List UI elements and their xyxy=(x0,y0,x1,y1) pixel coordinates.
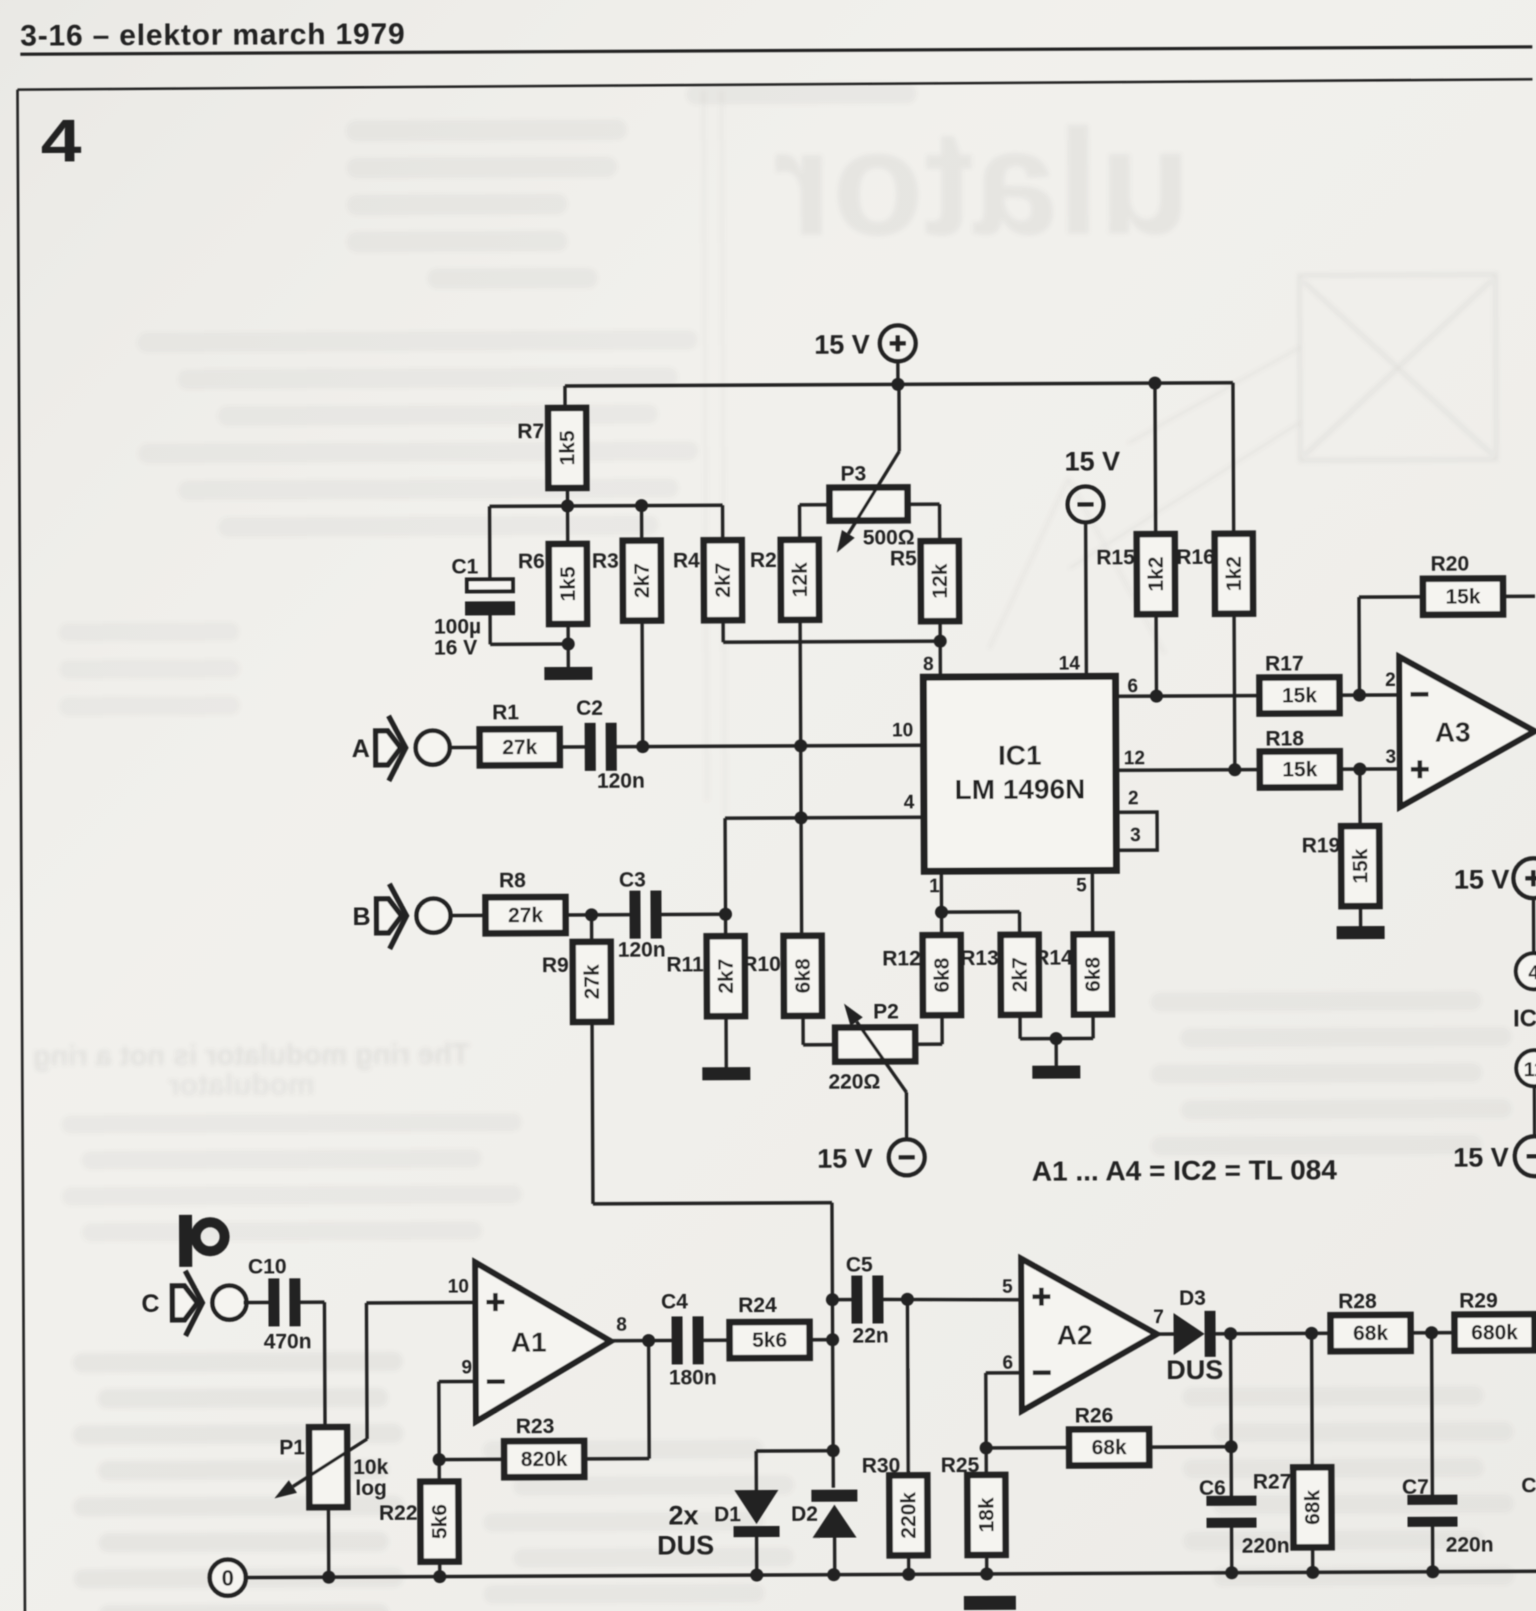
capacitor C5 xyxy=(851,1276,862,1324)
wire xyxy=(986,1446,1069,1450)
capacitor C2 xyxy=(585,723,596,771)
resistor R26 xyxy=(1069,1429,1149,1465)
wire xyxy=(1231,383,1235,534)
pin 11 xyxy=(1516,1050,1536,1086)
wire xyxy=(439,1458,505,1462)
resistor R10 xyxy=(784,936,822,1016)
node 0 terminal xyxy=(210,1560,246,1596)
wire xyxy=(1216,1332,1329,1336)
wire D1 branch xyxy=(756,1449,833,1453)
wire A2 out xyxy=(1157,1332,1174,1335)
svg-text:820k: 820k xyxy=(521,1448,568,1471)
wire xyxy=(800,503,830,507)
svg-text:D1: D1 xyxy=(714,1503,741,1526)
wire xyxy=(640,621,644,747)
svg-text:2k7: 2k7 xyxy=(712,563,735,598)
svg-text:R9: R9 xyxy=(542,954,569,977)
wire to IC1 pin 4 xyxy=(725,816,924,820)
svg-text:P1: P1 xyxy=(279,1436,305,1459)
svg-text:2: 2 xyxy=(1385,670,1396,691)
power +15V top xyxy=(880,325,916,361)
svg-text:R14: R14 xyxy=(1034,947,1073,970)
resistor R16 xyxy=(1215,534,1253,614)
svg-text:6: 6 xyxy=(1127,676,1138,697)
resistor R27 xyxy=(1293,1467,1331,1547)
capacitor C10 xyxy=(268,1278,279,1326)
svg-text:27k: 27k xyxy=(502,736,537,759)
resistor R4 xyxy=(704,540,742,620)
svg-text:220n: 220n xyxy=(1242,1534,1290,1557)
resistor R20 xyxy=(1423,578,1503,614)
svg-text:5: 5 xyxy=(1076,875,1087,896)
svg-text:10: 10 xyxy=(448,1276,469,1297)
resistor R19 xyxy=(1341,826,1379,906)
node rail/15V xyxy=(891,378,904,391)
svg-text:680k: 680k xyxy=(1471,1321,1518,1344)
svg-text:16 V: 16 V xyxy=(434,636,477,659)
wire P3 wiper xyxy=(897,384,901,451)
resistor R25 xyxy=(967,1475,1005,1555)
resistor R5 xyxy=(921,541,959,621)
wire xyxy=(1229,1334,1233,1501)
wire pin 12 xyxy=(1116,768,1261,772)
wire xyxy=(565,913,630,917)
svg-text:C5: C5 xyxy=(846,1253,873,1276)
svg-text:9: 9 xyxy=(461,1357,472,1378)
wire xyxy=(985,1555,988,1574)
svg-text:A2: A2 xyxy=(1057,1319,1093,1350)
svg-text:2x: 2x xyxy=(668,1500,698,1530)
power +15V (IC2 pin 4) xyxy=(1513,858,1536,898)
ground xyxy=(964,1596,1016,1610)
wire 0 rail xyxy=(246,1571,1536,1577)
svg-text:5: 5 xyxy=(1002,1277,1013,1298)
wire xyxy=(563,386,567,408)
wire xyxy=(566,624,570,667)
svg-text:12k: 12k xyxy=(929,563,952,598)
svg-text:1k2: 1k2 xyxy=(1145,557,1168,592)
ground xyxy=(702,1067,750,1080)
svg-text:100µ: 100µ xyxy=(434,615,481,638)
wire xyxy=(1505,595,1535,599)
wire pin 1 xyxy=(940,871,944,935)
wire xyxy=(1230,1528,1234,1573)
svg-text:R2: R2 xyxy=(750,549,777,572)
svg-text:R30: R30 xyxy=(862,1454,901,1477)
node xyxy=(585,908,598,921)
capacitor C6 xyxy=(1206,1496,1256,1506)
svg-text:R27: R27 xyxy=(1253,1470,1292,1493)
svg-text:6k8: 6k8 xyxy=(792,958,815,993)
op-amp A2 xyxy=(1021,1258,1157,1411)
wire xyxy=(1153,383,1157,534)
wire xyxy=(450,914,487,918)
svg-text:R16: R16 xyxy=(1176,546,1215,569)
diode D1 xyxy=(734,1490,778,1524)
wire xyxy=(906,1299,910,1475)
svg-text:DUS: DUS xyxy=(1166,1355,1223,1385)
wire pin 6 xyxy=(986,1371,1022,1375)
ground xyxy=(1032,1065,1080,1078)
svg-text:R18: R18 xyxy=(1265,727,1304,750)
wire xyxy=(908,502,940,506)
resistor R12 xyxy=(923,935,961,1015)
wire R13/R14 to ground xyxy=(1018,1015,1022,1039)
resistor R6 xyxy=(549,544,587,624)
wire xyxy=(1535,1331,1536,1334)
svg-text:8: 8 xyxy=(923,654,934,675)
svg-text:P2: P2 xyxy=(873,1000,899,1023)
svg-text:ulator: ulator xyxy=(773,97,1191,267)
capacitor C3 xyxy=(629,891,640,939)
svg-text:B: B xyxy=(352,903,370,931)
svg-text:2k7: 2k7 xyxy=(631,563,654,598)
svg-text:1: 1 xyxy=(929,876,940,897)
svg-text:220k: 220k xyxy=(897,1492,920,1539)
svg-text:2k7: 2k7 xyxy=(1009,957,1032,992)
wire xyxy=(940,1015,944,1044)
wire xyxy=(1359,906,1362,926)
svg-text:1k2: 1k2 xyxy=(1223,556,1246,591)
svg-text:C8: C8 xyxy=(1521,1474,1536,1497)
wire xyxy=(449,746,480,750)
wire xyxy=(300,1300,324,1304)
svg-text:R29: R29 xyxy=(1459,1289,1498,1312)
resistor R3 xyxy=(623,541,661,621)
capacitor C4 xyxy=(671,1316,682,1364)
node xyxy=(561,499,574,512)
svg-text:R3: R3 xyxy=(592,550,619,573)
diode D3 xyxy=(1173,1313,1204,1355)
svg-text:A1 ... A4 = IC2 = TL 084: A1 ... A4 = IC2 = TL 084 xyxy=(1032,1154,1338,1186)
svg-text:C7: C7 xyxy=(1402,1476,1429,1499)
resistor R24 xyxy=(730,1322,810,1358)
svg-text:A: A xyxy=(352,735,370,763)
wire xyxy=(566,506,570,544)
svg-text:R10: R10 xyxy=(742,953,781,976)
svg-text:120n: 120n xyxy=(618,939,666,962)
svg-text:10k: 10k xyxy=(353,1456,388,1479)
svg-text:log: log xyxy=(355,1477,387,1500)
wire pins 2-3 jumper xyxy=(1116,812,1157,850)
wire xyxy=(1149,1445,1231,1449)
wire xyxy=(1533,1087,1536,1136)
resistor R13 xyxy=(1001,935,1039,1015)
svg-text:220Ω: 220Ω xyxy=(828,1070,880,1093)
svg-text:C6: C6 xyxy=(1199,1477,1226,1500)
ground xyxy=(1337,926,1385,939)
wire P2 wiper xyxy=(857,1021,907,1092)
svg-text:0: 0 xyxy=(222,1566,234,1591)
wire xyxy=(590,915,594,942)
svg-text:1k5: 1k5 xyxy=(556,430,579,465)
resistor R1 xyxy=(480,729,560,765)
wire R9 loop to C5 node xyxy=(590,1022,594,1204)
svg-text:The ring modulator is not a ri: The ring modulator is not a ring xyxy=(33,1038,470,1072)
wire xyxy=(755,1537,759,1575)
svg-text:12: 12 xyxy=(1124,748,1145,769)
wire xyxy=(801,1016,805,1045)
wire to IC1 pin 10 xyxy=(617,745,924,747)
svg-text:15 V: 15 V xyxy=(1064,446,1120,476)
resistor R9 xyxy=(573,942,611,1022)
ground xyxy=(544,667,592,680)
svg-text:22n: 22n xyxy=(852,1324,888,1347)
svg-text:10: 10 xyxy=(892,720,913,741)
wire xyxy=(1311,1547,1315,1572)
resistor R14 xyxy=(1074,934,1112,1014)
svg-text:R11: R11 xyxy=(666,953,704,976)
resistor R7 xyxy=(548,408,586,488)
svg-text:modulator: modulator xyxy=(168,1068,315,1102)
wire xyxy=(560,745,585,749)
wire to R19 xyxy=(1358,769,1362,826)
svg-text:R1: R1 xyxy=(492,701,519,724)
node xyxy=(934,635,947,648)
wire xyxy=(721,505,725,540)
wire xyxy=(938,621,942,677)
resistor R29 xyxy=(1454,1314,1534,1350)
svg-text:5k6: 5k6 xyxy=(752,1329,787,1352)
svg-text:IC2: IC2 xyxy=(1513,1005,1536,1032)
svg-text:R15: R15 xyxy=(1096,546,1135,569)
svg-text:18k: 18k xyxy=(975,1497,998,1532)
svg-text:R7: R7 xyxy=(517,420,544,443)
svg-text:6k8: 6k8 xyxy=(931,957,954,992)
svg-text:R22: R22 xyxy=(379,1502,418,1525)
node xyxy=(795,811,808,824)
resistor R11 xyxy=(707,936,745,1016)
wire xyxy=(438,1562,441,1577)
potentiometer P2 xyxy=(835,1027,915,1061)
pin 4 xyxy=(1516,953,1536,989)
svg-text:6: 6 xyxy=(1002,1353,1013,1374)
wire xyxy=(1154,614,1158,696)
wire xyxy=(1431,1527,1435,1572)
wire xyxy=(833,1538,837,1575)
svg-text:R25: R25 xyxy=(941,1454,980,1477)
wire A1 out xyxy=(611,1339,672,1343)
svg-text:R20: R20 xyxy=(1431,553,1470,576)
svg-text:15 V: 15 V xyxy=(1453,1142,1509,1172)
power -15V (pin 14) xyxy=(1084,522,1088,676)
svg-text:LM 1496N: LM 1496N xyxy=(954,773,1085,805)
svg-text:P3: P3 xyxy=(840,463,866,486)
resistor R8 xyxy=(485,897,565,933)
svg-text:2: 2 xyxy=(1128,788,1139,809)
svg-text:15k: 15k xyxy=(1282,684,1317,707)
wire xyxy=(243,1301,268,1305)
wire xyxy=(488,506,492,579)
svg-text:R12: R12 xyxy=(882,947,921,970)
node xyxy=(562,637,575,650)
svg-text:R23: R23 xyxy=(516,1415,555,1438)
resistor R23 xyxy=(504,1441,584,1477)
svg-text:C3: C3 xyxy=(619,869,646,892)
svg-text:R17: R17 xyxy=(1265,652,1304,675)
figure frame xyxy=(17,79,1532,89)
wire xyxy=(437,1460,441,1482)
svg-text:11: 11 xyxy=(1524,1059,1536,1081)
wire xyxy=(640,506,644,541)
svg-text:8: 8 xyxy=(616,1315,627,1336)
resistor R17 xyxy=(1259,677,1339,713)
wire xyxy=(724,1016,728,1067)
svg-text:C2: C2 xyxy=(576,697,603,720)
svg-text:C4: C4 xyxy=(661,1290,688,1313)
node xyxy=(636,740,649,753)
wire xyxy=(721,620,725,642)
wire xyxy=(723,818,727,936)
resistor R22 xyxy=(420,1482,458,1562)
svg-text:68k: 68k xyxy=(1092,1436,1127,1459)
wire xyxy=(1310,1333,1314,1467)
svg-text:3: 3 xyxy=(1385,747,1396,768)
potentiometer P3 xyxy=(829,487,907,520)
svg-text:180n: 180n xyxy=(669,1366,717,1389)
svg-text:D2: D2 xyxy=(791,1503,818,1526)
wire xyxy=(1340,767,1400,771)
svg-text:68k: 68k xyxy=(1301,1489,1324,1524)
svg-text:IC1: IC1 xyxy=(998,740,1042,771)
wire feedback to R20 xyxy=(1357,597,1361,695)
svg-text:7: 7 xyxy=(1153,1307,1164,1328)
stray mark (pen) xyxy=(179,1215,192,1267)
node xyxy=(719,908,732,921)
wire xyxy=(984,1448,988,1475)
svg-text:A3: A3 xyxy=(1435,717,1471,748)
svg-text:68k: 68k xyxy=(1353,1322,1388,1345)
svg-text:R26: R26 xyxy=(1075,1404,1114,1427)
svg-text:120n: 120n xyxy=(597,770,645,793)
svg-text:15 V: 15 V xyxy=(814,329,870,359)
svg-text:4: 4 xyxy=(1528,962,1536,984)
wire xyxy=(583,1457,649,1461)
svg-text:D3: D3 xyxy=(1179,1287,1206,1310)
resistor R30 xyxy=(889,1475,927,1555)
node R3 top xyxy=(635,499,648,512)
capacitor C1 (electrolytic 100u/16V) xyxy=(467,579,513,591)
wire xyxy=(1232,614,1236,770)
diode D2 xyxy=(811,1490,857,1502)
power -15V (IC2 pin 11) xyxy=(1515,1136,1536,1176)
svg-text:15k: 15k xyxy=(1445,586,1480,609)
svg-text:DUS: DUS xyxy=(657,1530,714,1560)
svg-text:R4: R4 xyxy=(673,549,700,572)
wire xyxy=(1339,693,1399,697)
wire xyxy=(810,1338,833,1342)
svg-text:15k: 15k xyxy=(1349,848,1372,883)
capacitor C7 xyxy=(1407,1495,1457,1505)
svg-text:5k6: 5k6 xyxy=(428,1504,451,1539)
svg-text:500Ω: 500Ω xyxy=(863,526,915,549)
resistor R15 xyxy=(1137,534,1175,614)
wire pin 6 xyxy=(1115,694,1260,698)
svg-text:3-16 – elektor march 1979: 3-16 – elektor march 1979 xyxy=(20,18,405,53)
wire xyxy=(832,1298,851,1301)
wire bias rail xyxy=(490,505,723,506)
op-amp A1 xyxy=(475,1262,611,1422)
svg-text:R24: R24 xyxy=(738,1294,777,1317)
svg-text:A1: A1 xyxy=(511,1327,547,1358)
wire xyxy=(896,361,900,384)
wire +15V rail xyxy=(565,383,1233,386)
wire pin 9 xyxy=(439,1380,476,1384)
svg-text:R13: R13 xyxy=(960,947,999,970)
svg-text:4: 4 xyxy=(41,108,82,175)
svg-text:27k: 27k xyxy=(508,904,543,927)
svg-text:C1: C1 xyxy=(451,555,478,578)
svg-text:R6: R6 xyxy=(518,550,545,573)
svg-text:1k5: 1k5 xyxy=(557,566,580,601)
resistor R18 xyxy=(1260,751,1340,787)
wire node column xyxy=(831,1300,835,1488)
wire xyxy=(907,1555,910,1574)
svg-text:2k7: 2k7 xyxy=(715,959,738,994)
svg-text:C10: C10 xyxy=(248,1255,287,1278)
svg-text:R8: R8 xyxy=(499,869,526,892)
svg-text:15k: 15k xyxy=(1282,758,1317,781)
svg-text:C: C xyxy=(141,1290,159,1318)
svg-text:470n: 470n xyxy=(264,1330,312,1353)
wire xyxy=(1430,1333,1434,1500)
svg-text:R19: R19 xyxy=(1302,834,1341,857)
svg-text:15 V: 15 V xyxy=(817,1143,873,1173)
wire P1 wiper xyxy=(293,1439,368,1487)
wire xyxy=(327,1507,331,1577)
potentiometer P1 xyxy=(309,1427,347,1507)
wire xyxy=(1532,898,1536,953)
svg-text:6k8: 6k8 xyxy=(1082,957,1105,992)
wire xyxy=(566,488,569,506)
op-amp IC1 LM1496N xyxy=(923,676,1116,871)
resistor R28 xyxy=(1331,1315,1411,1351)
op-amp A3 xyxy=(1399,656,1535,807)
resistor R2 xyxy=(781,540,819,620)
power -15V (P2) xyxy=(889,1139,925,1175)
svg-text:15 V: 15 V xyxy=(1454,864,1510,894)
svg-text:12k: 12k xyxy=(789,562,812,597)
svg-text:4: 4 xyxy=(904,792,915,813)
wire xyxy=(800,620,802,936)
svg-text:27k: 27k xyxy=(581,964,604,999)
svg-text:3: 3 xyxy=(1130,825,1141,846)
svg-text:R5: R5 xyxy=(890,547,917,570)
svg-text:14: 14 xyxy=(1059,653,1081,674)
svg-text:R28: R28 xyxy=(1338,1290,1377,1313)
wire xyxy=(662,913,726,917)
wire xyxy=(488,615,492,644)
wire xyxy=(1411,1331,1453,1335)
wire pin 5 xyxy=(1091,870,1095,934)
svg-text:220n: 220n xyxy=(1446,1533,1494,1556)
wire xyxy=(704,1338,730,1342)
